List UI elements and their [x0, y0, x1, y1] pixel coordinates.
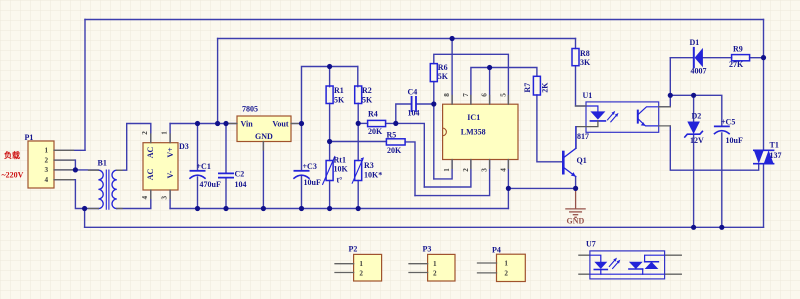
wire node rail to D2 and C5 — [670, 95, 722, 126]
wire T1 bottom to rail — [763, 164, 765, 228]
svg-text:R8: R8 — [580, 49, 590, 58]
svg-text:R6: R6 — [438, 63, 448, 72]
wire collector node to U1 — [659, 95, 671, 107]
transformer B1 secondary coil — [112, 170, 117, 208]
capacitor C3 plates — [294, 170, 308, 172]
node C4 right / R6 junction — [431, 101, 436, 106]
svg-text:IC1: IC1 — [467, 113, 480, 122]
svg-text:R5: R5 — [387, 130, 397, 139]
triac T1 top bar — [754, 149, 774, 151]
svg-text:5K: 5K — [362, 95, 373, 104]
node C2 ground junction — [223, 206, 228, 211]
diode D1 triangle — [695, 48, 703, 67]
svg-text:V+: V+ — [166, 147, 175, 158]
wire C4 left lead — [396, 104, 412, 123]
svg-text:1: 1 — [443, 168, 451, 172]
svg-text:V-: V- — [166, 170, 175, 178]
wire R1 bottom to Rt1 — [329, 103, 331, 160]
wire LM358 pin8 riser — [451, 39, 453, 105]
svg-text:4: 4 — [499, 168, 507, 172]
capacitor C4 plates — [412, 97, 416, 111]
svg-text:AC: AC — [146, 147, 155, 159]
D3 pin stubs — [151, 134, 170, 199]
wire P1 pin1 lead — [54, 149, 85, 151]
node D2 top junction — [691, 93, 696, 98]
wire mains bottom rail — [85, 226, 764, 228]
U1 phototransistor bar — [637, 111, 639, 123]
U1 cathode exit wire — [576, 121, 598, 148]
wire V-unreg rail y38.5 — [218, 38, 576, 40]
wire U1 emitter to T1 gate — [670, 126, 758, 170]
capacitor C2 plates — [219, 173, 233, 177]
transistor Q1 emitter — [564, 168, 576, 177]
wire riser from Vin rail to y38.5 rail — [217, 39, 219, 124]
svg-text:470uF: 470uF — [200, 180, 221, 189]
svg-text:Vin: Vin — [241, 120, 254, 129]
svg-text:T1: T1 — [770, 140, 779, 149]
svg-text:3: 3 — [160, 195, 168, 199]
U7 LED cathode bar — [594, 269, 607, 271]
svg-text:C4: C4 — [408, 87, 418, 96]
svg-text:GND: GND — [255, 132, 273, 141]
svg-text:10uF: 10uF — [304, 178, 321, 187]
IC1 notch — [443, 128, 447, 136]
thermistor Rt1 body — [326, 161, 333, 181]
resistor R2 body — [355, 86, 362, 104]
svg-text:R1: R1 — [334, 86, 344, 95]
triac T1 bottom bar — [754, 163, 774, 165]
svg-text:+C1: +C1 — [197, 162, 211, 171]
node R1 top junction — [327, 64, 332, 69]
svg-text:R7: R7 — [523, 83, 532, 93]
IC1 pin stubs — [452, 95, 508, 168]
node riser junction on Vin rail — [215, 121, 220, 126]
wire C3 bottom lead — [301, 177, 303, 209]
wire D3 pin3 to ground rail — [169, 190, 171, 209]
U1 phototransistor emitter — [638, 119, 659, 126]
wire Vin rail D3 to 7805 — [170, 123, 237, 125]
svg-text:12V: 12V — [690, 136, 704, 145]
node C2 top junction — [223, 121, 228, 126]
node pin6 junction — [487, 65, 492, 70]
wire R3 bottom to ground — [357, 181, 359, 209]
svg-text:+C3: +C3 — [303, 162, 317, 171]
node P1 pin2/pin3 junction — [73, 167, 78, 172]
wire R7 bottom to Q1 base — [537, 95, 562, 162]
svg-text:GND: GND — [567, 216, 585, 225]
svg-text:U1: U1 — [583, 91, 593, 100]
svg-text:4: 4 — [45, 176, 49, 184]
thermistor Rt1 diagonal — [323, 157, 335, 185]
potentiometer R3 arrow — [352, 160, 362, 184]
resistor R7 body — [533, 76, 540, 95]
svg-text:Vout: Vout — [272, 120, 288, 129]
U7 light arrows — [609, 261, 618, 269]
svg-text:104: 104 — [235, 180, 247, 189]
svg-text:10K: 10K — [334, 164, 349, 173]
svg-text:10K*: 10K* — [364, 171, 382, 180]
svg-text:LM358: LM358 — [461, 127, 486, 136]
P4 pin stubs — [478, 263, 497, 273]
svg-text:137: 137 — [770, 151, 782, 160]
svg-text:2: 2 — [141, 131, 149, 135]
wire D2 top lead — [693, 95, 695, 121]
node R3 ground junction — [356, 206, 361, 211]
regulator 7805 body — [237, 116, 291, 142]
wire secondary ground rail — [170, 208, 508, 210]
wire pin1 to feedback node — [434, 160, 452, 179]
wire R9 to frame segment — [750, 57, 764, 59]
wire C4 right lead — [416, 103, 434, 105]
svg-text:AC: AC — [146, 169, 155, 181]
svg-text:2: 2 — [504, 270, 508, 278]
svg-text:2: 2 — [462, 168, 470, 172]
triac T1 right triangle — [764, 150, 774, 163]
svg-text:2: 2 — [433, 270, 437, 278]
potentiometer R3 body — [355, 161, 362, 181]
svg-text:1: 1 — [504, 260, 508, 268]
svg-text:2K: 2K — [541, 82, 550, 93]
transistor Q1 collector — [564, 127, 576, 158]
node C5 bottom junction — [719, 225, 724, 230]
U7 triac MT1 drop — [642, 269, 644, 274]
zener D2 triangle — [687, 122, 700, 135]
ground symbol — [566, 190, 585, 217]
wire D2 bottom lead — [693, 134, 695, 227]
wire pin7 to R7 top rail — [471, 68, 537, 105]
node 7805 ground junction — [261, 206, 266, 211]
node Vout/C3/5V riser junction — [299, 121, 304, 126]
wire C5 bottom lead — [721, 133, 723, 227]
svg-text:817: 817 — [577, 132, 589, 141]
svg-text:20K: 20K — [368, 127, 383, 136]
B1 pin stubs — [89, 170, 123, 208]
wire top frame rail — [85, 19, 764, 21]
svg-text:U7: U7 — [586, 240, 596, 249]
svg-text:R9: R9 — [733, 44, 743, 53]
resistor R5 body — [386, 139, 405, 145]
P1 pin stubs — [54, 150, 74, 179]
U7 LED cathode drop — [600, 270, 602, 275]
wire R2 bottom to R3 — [357, 103, 359, 160]
wire R8 bottom to U1 anode — [576, 66, 587, 106]
U7 triac bars — [629, 262, 659, 269]
wire D1 corner drop to U1 collector node — [669, 58, 671, 96]
svg-text:5K: 5K — [334, 95, 345, 104]
node C3 ground junction — [299, 206, 304, 211]
transformer B1 primary coil — [98, 170, 103, 208]
svg-text:P3: P3 — [423, 245, 432, 254]
wire 7805 Vout lead — [291, 123, 302, 125]
U7 triac MT2 path — [645, 255, 665, 262]
svg-text:P2: P2 — [349, 245, 358, 254]
wire 7805 GND pin drop — [262, 142, 264, 209]
wire C2 bottom lead — [225, 178, 227, 209]
opto-triac U7 body — [590, 251, 665, 279]
node U1 collector / D1 junction — [668, 93, 673, 98]
connector P4 — [497, 254, 526, 281]
wire B1 secondary top to D3 pin2 — [117, 124, 151, 171]
svg-text:2: 2 — [45, 156, 49, 164]
svg-text:3K: 3K — [580, 58, 591, 67]
svg-text:1: 1 — [160, 131, 168, 135]
wire Rt1 node to R5 rail — [330, 141, 387, 143]
wire pin3 to R5 riser — [415, 160, 490, 196]
svg-text:P4: P4 — [492, 246, 501, 255]
svg-text:5K: 5K — [438, 72, 449, 81]
svg-text:R2: R2 — [362, 86, 372, 95]
wire D1 to R9 segment — [703, 57, 732, 59]
triac T1 left triangle — [754, 150, 764, 163]
wire R4 right to pin2 riser — [386, 123, 425, 187]
resistor R4 body — [368, 120, 386, 126]
bridge rectifier D3 body — [143, 143, 178, 190]
U7 triac left triangle — [629, 262, 643, 269]
svg-text:3: 3 — [481, 168, 489, 172]
wire pin2 to R4 riser — [424, 160, 471, 188]
node Q1 emitter / ground junction — [573, 186, 578, 191]
wire C1 top lead — [197, 124, 199, 171]
connector P3 — [428, 254, 455, 281]
wire R4 left lead — [358, 122, 367, 124]
svg-text:20K: 20K — [387, 146, 402, 155]
resistor R8 body — [572, 49, 579, 66]
resistor R6 body — [430, 64, 437, 82]
wire B1 secondary bottom to D3 pin4 — [117, 190, 151, 209]
svg-text:4: 4 — [141, 195, 149, 199]
svg-text:104: 104 — [408, 108, 420, 117]
svg-text:2: 2 — [359, 270, 363, 278]
P2 pin stubs — [335, 264, 354, 273]
U1 phototransistor collector — [638, 107, 659, 115]
U7 LED triangle — [594, 262, 607, 269]
wire right frame vertical to T1 — [763, 20, 765, 151]
wire P1 pin3 to B1 primary top — [54, 169, 98, 171]
node C1 top junction — [195, 121, 200, 126]
wire D1 line left segment — [670, 57, 693, 59]
wire D3 pin1 riser — [169, 124, 171, 143]
U7 internal bottom line — [590, 273, 665, 275]
wire R6 bottom feedback column — [433, 82, 435, 179]
capacitor C1 plates — [190, 170, 204, 172]
svg-text:R3: R3 — [364, 161, 374, 170]
svg-text:3: 3 — [45, 166, 49, 174]
optocoupler U1 body — [586, 102, 659, 132]
node R1/Rt1/R5 junction — [327, 139, 332, 144]
svg-text:4007: 4007 — [691, 67, 707, 76]
connector P1 — [28, 141, 54, 188]
wire P1 pin4 jog to B1 primary bottom — [54, 180, 98, 209]
resistor R1 body — [326, 86, 333, 104]
resistor R9 body — [732, 55, 750, 61]
capacitor C5 plates — [715, 125, 729, 127]
wire C1 bottom lead — [197, 177, 199, 209]
svg-text:D3: D3 — [179, 142, 189, 151]
wire R8 top drop — [575, 39, 577, 49]
svg-text:C2: C2 — [235, 170, 245, 179]
U1 LED cathode bar — [590, 120, 605, 122]
connector P2 — [354, 254, 382, 281]
svg-text:7805: 7805 — [242, 104, 258, 113]
U7 LED anode bend — [590, 255, 601, 262]
wire pin4 node to Q1 emitter node — [508, 187, 575, 189]
transformer B1 core — [106, 170, 109, 209]
wire pin4 to ground rail — [507, 160, 509, 209]
svg-text:Q1: Q1 — [577, 156, 587, 165]
svg-text:负载: 负载 — [4, 150, 20, 160]
svg-text:+C5: +C5 — [721, 117, 735, 126]
svg-text:1: 1 — [433, 260, 437, 268]
op-amp IC1 body — [443, 104, 518, 159]
U1 light arrows — [608, 114, 617, 122]
P3 pin stubs — [409, 264, 428, 273]
svg-text:t°: t° — [337, 175, 343, 184]
node B1 bottom / rail drop junction — [82, 206, 87, 211]
U7 pin stubs — [579, 255, 681, 274]
svg-text:D2: D2 — [692, 112, 702, 121]
wire Rt1 bottom to ground — [329, 181, 331, 209]
node D2 bottom junction — [691, 225, 696, 230]
wire R1 top lead — [329, 67, 331, 87]
node C4 left junction — [393, 121, 398, 126]
svg-text:B1: B1 — [98, 159, 107, 168]
diode D1 cathode bar — [693, 48, 695, 67]
svg-text:1: 1 — [359, 260, 363, 268]
U1 LED triangle — [590, 111, 605, 119]
svg-text:10uF: 10uF — [726, 136, 743, 145]
wire R6 top to pin5 — [434, 54, 509, 104]
svg-text:1: 1 — [45, 147, 49, 155]
wire pin6 riser — [489, 68, 491, 105]
wire C3 top lead — [301, 124, 303, 171]
node R9 / frame junction — [761, 55, 766, 60]
wire left frame vertical to P1 pin 1 — [84, 20, 86, 151]
svg-text:P1: P1 — [25, 133, 34, 142]
svg-text:~220V: ~220V — [2, 171, 24, 180]
U1 right pin stubs — [576, 106, 671, 126]
wire 5V riser and rail — [302, 67, 358, 124]
node C1 ground junction — [195, 206, 200, 211]
node pin8 junction — [450, 36, 455, 41]
7805 pin stubs — [229, 124, 300, 151]
svg-text:6: 6 — [481, 93, 489, 97]
wire Q1 emitter drop to node — [575, 177, 577, 189]
transistor Q1 base bar — [562, 152, 565, 173]
wire R2 top lead — [357, 67, 359, 87]
wire C2 top lead — [225, 124, 227, 174]
wire drop to mains bottom rail — [84, 209, 86, 228]
node Rt1 ground junction — [327, 206, 332, 211]
U7 triac right triangle — [645, 262, 659, 269]
svg-text:27K: 27K — [729, 60, 744, 69]
svg-text:D1: D1 — [690, 38, 700, 47]
wire P1 pin2 jog down — [54, 160, 75, 170]
node pin4 branch junction — [506, 186, 511, 191]
svg-text:8: 8 — [443, 93, 451, 97]
node R2/R4/R3 junction — [356, 121, 361, 126]
svg-text:7: 7 — [462, 93, 470, 97]
wire R5 right to pin3 riser — [405, 142, 415, 196]
svg-text:R4: R4 — [368, 109, 378, 118]
svg-text:5: 5 — [499, 93, 507, 97]
U1 LED anode bend — [586, 106, 598, 111]
zener D2 bar with wings — [685, 131, 703, 137]
